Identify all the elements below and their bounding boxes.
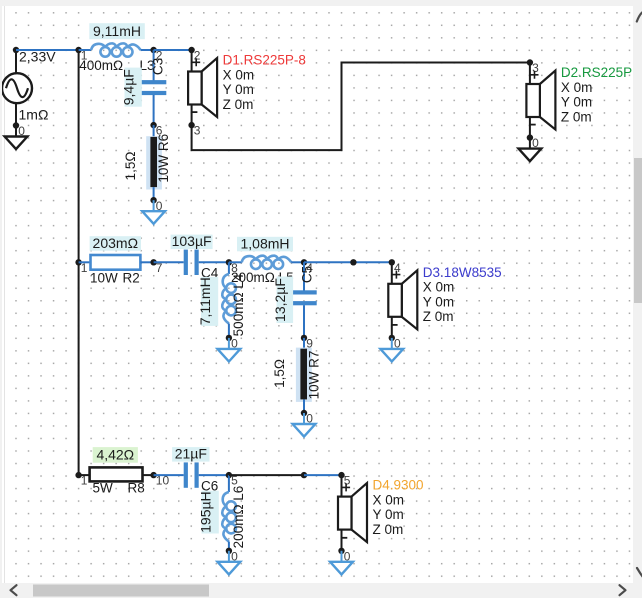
svg-text:X 0m: X 0m: [373, 492, 405, 507]
resistor R7 1,5Ω 10W (vertical): [296, 338, 312, 413]
svg-text:Y 0m: Y 0m: [423, 294, 454, 309]
resistor R6 value label 1,5Ω: [123, 152, 138, 181]
wire source to node 1: [16, 49, 79, 51]
speaker D4 9300 label: [373, 478, 424, 537]
svg-text:R8: R8: [128, 481, 145, 496]
wire: [15, 103, 17, 125]
junction dot on wire to D3: [350, 259, 356, 265]
node 10 junction dot: [150, 472, 169, 488]
svg-text:Y 0m: Y 0m: [561, 95, 592, 110]
node 9 junction dot: [301, 335, 313, 351]
svg-text:3: 3: [194, 124, 201, 138]
node 1 junction dot: [75, 47, 87, 63]
svg-text:1mΩ: 1mΩ: [19, 106, 49, 122]
svg-text:2: 2: [194, 49, 201, 63]
svg-text:3: 3: [532, 61, 539, 75]
ground under D4 (blue): [330, 551, 353, 575]
capacitor C5 13,2µF (vertical): [291, 262, 316, 338]
node 5 junction dot: [226, 472, 238, 488]
node 0 under D4: [338, 548, 350, 564]
capacitor C4 value label 103µF: [171, 233, 213, 249]
inductor L6 name label 200mΩ L6: [231, 486, 246, 549]
inductor L3 9,11mH 400mΩ: [79, 43, 154, 56]
speaker D2 RS225P: [526, 63, 555, 138]
svg-text:103µF: 103µF: [172, 233, 212, 249]
capacitor C4 name label: [201, 265, 219, 280]
svg-text:4,42Ω: 4,42Ω: [96, 447, 134, 463]
node 1 junction on bus (middle): [75, 259, 87, 275]
node 7 junction dot: [150, 259, 162, 275]
inductor L4 7,11mH 500mΩ (vertical): [222, 262, 236, 338]
wire junction to D4 (blue): [304, 474, 342, 476]
capacitor C6 21µF: [154, 462, 229, 487]
svg-text:D4.9300: D4.9300: [373, 478, 424, 493]
node 1 junction on bus (bottom): [75, 472, 87, 488]
svg-text:C5: C5: [299, 266, 314, 283]
svg-text:4: 4: [394, 261, 401, 275]
capacitor C4 103µF: [154, 250, 229, 275]
svg-text:X 0m: X 0m: [561, 80, 593, 95]
capacitor C3 value label 9,4µF: [120, 68, 141, 107]
speaker D3 18W8535: [388, 262, 417, 338]
inductor L6 value label 195µH: [197, 491, 218, 534]
node 2 at D1 terminal: [188, 47, 200, 63]
node 4 junction dot: [301, 259, 313, 275]
inductor L3 value label 9,11mH: [89, 23, 145, 39]
svg-text:1,5Ω: 1,5Ω: [123, 152, 138, 181]
resistor R8 name label 5W R8: [93, 481, 145, 496]
resistor R2 203mΩ 10W: [79, 255, 154, 270]
svg-text:D2.RS225P: D2.RS225P: [561, 65, 632, 80]
speaker D1 RS225P-8: [188, 50, 217, 125]
ground under D2 (black): [519, 138, 542, 162]
svg-text:10W R7: 10W R7: [306, 351, 321, 400]
wire bus vertical: [78, 50, 80, 475]
node 0 under D3: [389, 335, 401, 351]
node 0 at source: [13, 122, 25, 138]
inductor L4 value label 7,11mH: [197, 277, 218, 326]
speaker D3 18W8535 label: [423, 265, 502, 324]
voltage source V1 2,33V 1mΩ: [2, 49, 56, 123]
svg-text:195µH: 195µH: [197, 491, 213, 533]
inductor L5 name label 200mΩ L5: [231, 270, 294, 285]
resistor R8 4,42Ω 5W: [79, 467, 154, 481]
svg-text:9,11mH: 9,11mH: [93, 23, 141, 39]
ground under L6 (blue): [218, 551, 241, 575]
node 0 under D2: [527, 134, 539, 150]
svg-text:Y 0m: Y 0m: [373, 507, 404, 522]
node 8 junction dot: [226, 259, 238, 275]
svg-text:5: 5: [344, 474, 351, 488]
svg-text:D3.18W8535: D3.18W8535: [423, 265, 502, 280]
ground under D3 (blue): [380, 338, 403, 362]
capacitor C5 name label: [299, 266, 314, 283]
svg-text:10W R6: 10W R6: [156, 134, 171, 183]
node 3 under D1: [188, 122, 200, 138]
resistor R2 value label 203mΩ: [90, 235, 141, 251]
speaker D4 9300: [338, 475, 367, 551]
capacitor C6 name label: [201, 478, 218, 493]
wire: [15, 50, 17, 73]
junction dot on bottom wire: [301, 472, 307, 478]
speaker D1 RS225P-8 label: [223, 53, 306, 112]
svg-text:D1.RS225P-8: D1.RS225P-8: [223, 53, 306, 68]
svg-text:Z 0m: Z 0m: [373, 522, 404, 537]
svg-text:203mΩ: 203mΩ: [93, 235, 139, 251]
wire node 4 to D3: [304, 261, 392, 263]
svg-text:1,08mH: 1,08mH: [240, 235, 289, 251]
wire node 5 to junction (black): [229, 474, 304, 476]
svg-text:21µF: 21µF: [175, 446, 207, 462]
svg-text:X 0m: X 0m: [223, 67, 255, 82]
node 2 junction dot: [150, 47, 162, 63]
node 0 under R6: [150, 197, 162, 213]
svg-text:5W: 5W: [93, 481, 114, 496]
capacitor C3 name label: [150, 58, 165, 75]
svg-text:1,5Ω: 1,5Ω: [272, 359, 287, 388]
svg-text:X 0m: X 0m: [423, 280, 455, 295]
inductor L5 1,08mH 200mΩ: [229, 256, 304, 269]
ground under L4 (blue): [218, 338, 241, 362]
svg-text:Z 0m: Z 0m: [223, 97, 254, 112]
wire node 2 to D1: [154, 49, 192, 51]
resistor R2 name label 10W R2: [90, 271, 140, 286]
svg-text:C3: C3: [150, 58, 165, 75]
node at source top: [13, 47, 19, 53]
svg-text:400mΩ: 400mΩ: [79, 58, 123, 73]
inductor L5 value label 1,08mH: [237, 235, 293, 251]
ground under R7 (blue): [293, 413, 316, 437]
ground under R6 (blue): [142, 200, 165, 224]
capacitor C5 value label 13,2µF: [272, 277, 293, 324]
svg-text:200mΩ L6: 200mΩ L6: [231, 486, 246, 549]
resistor R6 name label 10W R6: [156, 134, 171, 183]
svg-text:2,33V: 2,33V: [19, 49, 56, 65]
resistor R7 value label 1,5Ω: [272, 359, 287, 388]
svg-text:R2: R2: [123, 271, 140, 286]
node 0 under R7: [301, 410, 313, 426]
svg-text:13,2µF: 13,2µF: [272, 278, 288, 322]
resistor R6 1,5Ω 10W (vertical): [146, 125, 162, 200]
node 4 at D3 terminal: [389, 259, 401, 275]
svg-text:Z 0m: Z 0m: [561, 109, 592, 124]
capacitor C3 9,4µF: [141, 50, 166, 125]
svg-text:9,4µF: 9,4µF: [120, 69, 136, 105]
resistor R8 value label 4,42Ω (green): [93, 447, 138, 463]
svg-text:10W: 10W: [90, 271, 118, 286]
svg-text:Y 0m: Y 0m: [223, 82, 254, 97]
node 6 junction dot: [150, 122, 162, 138]
inductor L3 name label 400mΩ L3: [79, 58, 154, 73]
node 0 under L4: [226, 335, 238, 351]
speaker D2 RS225P label: [561, 65, 632, 124]
inductor L4 name label 500mΩ L4: [231, 273, 246, 336]
capacitor C6 value label 21µF: [172, 446, 209, 462]
node 0 under L6: [226, 548, 238, 564]
inductor L6 195µH 200mΩ (vertical): [222, 475, 236, 551]
wire D1 to D2 (net 3): [192, 63, 530, 151]
resistor R7 name label 10W R7: [306, 351, 321, 400]
ground at source (black): [5, 126, 28, 150]
node 5 at D4 terminal: [338, 472, 350, 488]
node 3 at D2 terminal: [527, 59, 539, 75]
svg-text:Z 0m: Z 0m: [423, 309, 454, 324]
svg-text:7,11mH: 7,11mH: [197, 277, 213, 325]
